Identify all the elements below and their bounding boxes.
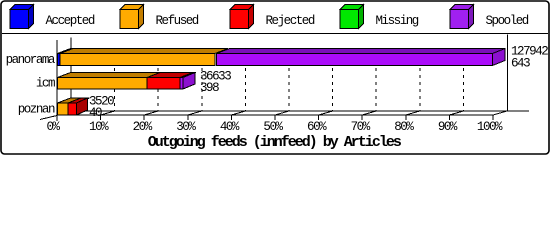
svg-text:Rejected: Rejected	[266, 14, 315, 28]
svg-text:100%: 100%	[477, 120, 503, 134]
svg-text:20%: 20%	[133, 120, 153, 134]
legend separator line	[2, 33, 548, 35]
legend cube Spooled	[450, 5, 474, 29]
bar icm front face purple	[180, 78, 183, 90]
bar panorama top face blue	[58, 49, 74, 54]
bar row icm	[58, 73, 197, 90]
svg-text:icm: icm	[36, 77, 55, 91]
legend cube Refused	[120, 5, 144, 29]
svg-text:Accepted: Accepted	[46, 14, 95, 28]
svg-text:Missing: Missing	[376, 14, 419, 28]
bar panorama front face orange	[60, 54, 215, 66]
tick 90%	[448, 115, 450, 120]
bar poznan side face red	[77, 98, 88, 115]
svg-text:40: 40	[89, 106, 102, 120]
bar poznan front face orange	[58, 103, 69, 115]
tick 20%	[143, 115, 145, 120]
gridline 20%	[157, 54, 159, 111]
bar icm top face red	[147, 73, 193, 78]
tick 50%	[274, 115, 276, 120]
bar row poznan	[58, 98, 90, 115]
gridline 60%	[332, 54, 334, 111]
bar poznan front face red	[68, 103, 77, 115]
svg-text:60%: 60%	[307, 120, 327, 134]
tick 0%	[56, 115, 58, 121]
outer border frame	[1, 1, 549, 154]
svg-text:10%: 10%	[89, 120, 109, 134]
bar panorama top face purple	[217, 49, 506, 54]
svg-text:panorama: panorama	[6, 53, 56, 67]
gridline 80%	[419, 54, 421, 111]
bar row panorama	[58, 49, 506, 66]
floor back line	[72, 110, 530, 112]
bar icm top face purple	[180, 73, 196, 78]
gridline 30%	[201, 54, 203, 111]
svg-text:398: 398	[200, 81, 219, 95]
bar icm side face purple	[183, 73, 195, 90]
bar poznan top face orange	[58, 98, 82, 103]
svg-text:643: 643	[511, 57, 530, 71]
bar icm top face orange	[58, 73, 161, 78]
tick 60%	[318, 115, 320, 120]
gridline 90%	[462, 54, 464, 111]
svg-text:0%: 0%	[46, 120, 60, 134]
tick 100%	[492, 115, 494, 120]
bar panorama top face orange	[60, 49, 228, 54]
bar icm front face red	[147, 78, 180, 90]
gridline 50%	[288, 54, 290, 111]
legend cube Accepted	[10, 5, 34, 29]
gridline 70%	[375, 54, 377, 111]
svg-text:90%: 90%	[438, 120, 458, 134]
tick 30%	[187, 115, 189, 120]
svg-text:70%: 70%	[351, 120, 371, 134]
svg-text:Refused: Refused	[156, 14, 199, 28]
bar poznan top face red	[68, 98, 90, 103]
bar panorama front face purple	[217, 54, 493, 66]
tick 10%	[100, 115, 102, 120]
tick 80%	[405, 115, 407, 120]
floor front line	[57, 114, 494, 116]
y-axis back line	[70, 38, 72, 112]
y-axis front line	[56, 40, 58, 121]
svg-text:50%: 50%	[263, 120, 283, 134]
gridline 10%	[114, 54, 116, 111]
bar panorama side face purple	[493, 49, 506, 66]
svg-text:30%: 30%	[176, 120, 196, 134]
gridline 40%	[244, 54, 246, 111]
svg-text:Spooled: Spooled	[486, 14, 529, 28]
axis back right line	[507, 35, 509, 112]
legend cube Rejected	[230, 5, 254, 29]
legend cube Missing	[340, 5, 364, 29]
tick 70%	[361, 115, 363, 120]
bar icm front face orange	[58, 78, 148, 90]
tick 40%	[230, 115, 232, 120]
floor left cap diagonal	[40, 116, 57, 120]
svg-text:Outgoing feeds (innfeed) by Ar: Outgoing feeds (innfeed) by Articles	[148, 134, 402, 151]
bar panorama front face blue	[58, 54, 61, 66]
svg-text:40%: 40%	[220, 120, 240, 134]
svg-text:80%: 80%	[394, 120, 414, 134]
svg-text:poznan: poznan	[18, 103, 55, 117]
